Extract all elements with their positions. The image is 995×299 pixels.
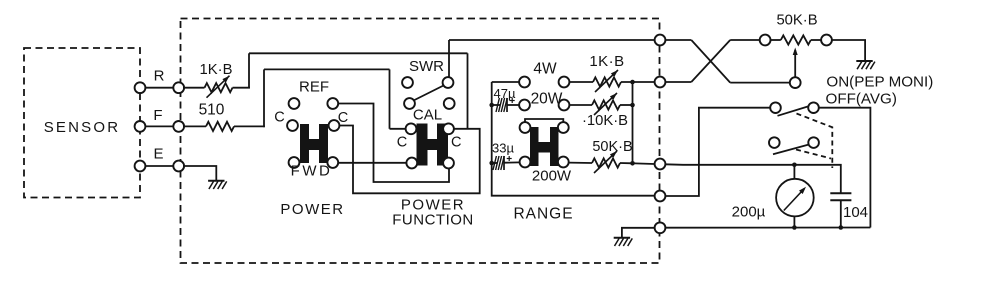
capacitor C3 plate top bbox=[830, 192, 851, 194]
pot VR2 terminal left bbox=[760, 35, 771, 46]
resistor R3 arrow bbox=[595, 70, 618, 92]
junction meter top bbox=[792, 163, 797, 168]
switch S3 contact 20W-left bbox=[519, 100, 530, 111]
switch S1 H wafer bbox=[300, 124, 328, 163]
svg-text:1K·B: 1K·B bbox=[589, 53, 624, 70]
switch S4 contact 1L bbox=[770, 102, 781, 113]
svg-text:C: C bbox=[274, 110, 284, 126]
switch S4 arm2 bbox=[773, 145, 808, 155]
terminal E sensor bbox=[135, 161, 146, 172]
svg-text:C: C bbox=[397, 135, 407, 151]
capacitor C3 plate bottom bbox=[830, 199, 851, 201]
svg-text:CAL: CAL bbox=[413, 107, 442, 124]
svg-text:510: 510 bbox=[199, 102, 225, 119]
svg-text:RANGE: RANGE bbox=[513, 206, 573, 223]
switch S4 contact 1R bbox=[808, 102, 819, 113]
switch S3 contact top-left bbox=[520, 122, 531, 133]
wire F to R2 bbox=[183, 125, 206, 127]
switch S3 contact bottom-left bbox=[520, 157, 531, 168]
terminal out range bbox=[655, 191, 666, 202]
wire R down to C bus bbox=[467, 53, 469, 129]
terminal out common bbox=[655, 222, 666, 233]
wire R3 to bus bbox=[621, 81, 655, 83]
wire riser R up bbox=[248, 53, 250, 88]
wire R4 to bus bbox=[620, 104, 633, 106]
terminal R main bbox=[173, 82, 184, 93]
svg-text:ON(PEP MONI): ON(PEP MONI) bbox=[826, 74, 933, 91]
switch S2 contact row2-left bbox=[404, 98, 415, 109]
svg-text:OFF(AVG): OFF(AVG) bbox=[826, 90, 897, 107]
wire 33µ a bbox=[492, 162, 497, 164]
wire 20W left b bbox=[508, 104, 520, 106]
wire VR1 to riser bbox=[233, 87, 250, 89]
switch S2 contact SWR-right bbox=[443, 77, 454, 88]
terminal R sensor bbox=[135, 82, 146, 93]
wire 20W right bbox=[569, 104, 592, 106]
svg-text:POWER: POWER bbox=[280, 201, 344, 218]
wire 33µ b bbox=[505, 161, 520, 163]
wire E link bbox=[140, 165, 179, 167]
meter M1 body bbox=[776, 179, 814, 217]
meter M1 stub bottom bbox=[793, 216, 795, 227]
switch S2 H wafer bbox=[417, 124, 449, 166]
pot VR2 wiper terminal bbox=[790, 77, 801, 88]
wire 200W right bbox=[569, 162, 592, 164]
wire F to S2 C-left bbox=[390, 128, 406, 130]
switch S2 contact C-left bbox=[406, 123, 417, 134]
svg-text:FWD: FWD bbox=[291, 163, 333, 180]
resistor R4 arrow bbox=[594, 93, 617, 115]
switch S1 contact REF-left bbox=[289, 98, 300, 109]
wire S4 out bbox=[819, 108, 871, 228]
pot VR2 terminal right bbox=[821, 35, 832, 46]
junction R3 bbox=[630, 80, 635, 85]
switch S1 contact C-left bbox=[287, 120, 298, 131]
wire F down bbox=[389, 69, 391, 128]
resistor VR1 zigzag bbox=[205, 83, 233, 92]
capacitor C1 47µ bbox=[496, 98, 499, 112]
switch S3 bracket bbox=[525, 119, 563, 122]
svg-text:REF: REF bbox=[299, 79, 329, 96]
wire R5 to bus bbox=[620, 162, 633, 164]
pot VR2 zigzag bbox=[781, 35, 811, 44]
switch S1 contact bottom-right bbox=[327, 157, 338, 168]
switch S3 contact top-right bbox=[558, 122, 569, 133]
svg-text:C: C bbox=[338, 110, 348, 126]
wire common to ground bbox=[622, 228, 655, 238]
switch S3 contact bottom-right bbox=[558, 157, 569, 168]
switch S2 contact bottom-right bbox=[443, 158, 454, 169]
wire cross to wiper bbox=[730, 82, 790, 84]
resistor R4 zigzag bbox=[592, 100, 620, 109]
wire S4 feed bbox=[665, 108, 770, 196]
resistor R3 zigzag bbox=[593, 77, 621, 86]
switch S4 contact 2R bbox=[808, 137, 819, 148]
terminal out meter+ bbox=[655, 159, 666, 170]
svg-text:50K·B: 50K·B bbox=[776, 13, 817, 29]
wire R5 to edge bbox=[633, 162, 655, 165]
wire 4W right bbox=[569, 81, 593, 83]
switch S2 contact bottom-left bbox=[406, 158, 417, 169]
switch S2 contact C-right bbox=[443, 123, 454, 134]
wire R link bbox=[140, 87, 179, 89]
wire cross diag up bbox=[691, 40, 730, 82]
wire cross bottom-left bbox=[665, 81, 691, 83]
svg-text:E: E bbox=[153, 146, 163, 163]
terminal F sensor bbox=[135, 121, 146, 132]
wire S2 SWR-right riser bbox=[448, 40, 450, 77]
svg-text:1K·B: 1K·B bbox=[200, 62, 233, 78]
switch S2 contact SWR-left bbox=[402, 77, 413, 88]
resistor R5 arrow bbox=[594, 151, 617, 173]
svg-text:F: F bbox=[153, 107, 162, 124]
switch S1 contact C-right bbox=[329, 120, 340, 131]
wire cross top-left bbox=[665, 39, 691, 41]
resistor R2 zigzag bbox=[206, 122, 234, 131]
pot VR2 right lead bbox=[811, 39, 821, 41]
svg-text:SENSOR: SENSOR bbox=[44, 119, 121, 136]
resistor VR1 arrow bbox=[207, 76, 230, 98]
svg-text:200W: 200W bbox=[532, 168, 572, 185]
switch S3 contact 4W-left bbox=[519, 77, 530, 88]
capacitor C2 33µ bbox=[493, 156, 496, 170]
terminal E main bbox=[173, 161, 184, 172]
pot VR2 wiper arrow bbox=[794, 50, 796, 77]
switch S4 arm1 bbox=[778, 107, 808, 116]
wire S1 C-right loop bbox=[339, 126, 479, 194]
svg-text:R: R bbox=[154, 68, 165, 85]
switch S1 contact REF-right bbox=[327, 98, 338, 109]
capacitor C3 lead bbox=[840, 200, 842, 227]
switch S3 contact 4W-right bbox=[559, 77, 570, 88]
svg-text:33µ: 33µ bbox=[492, 141, 514, 156]
svg-text:4W: 4W bbox=[533, 61, 557, 78]
ground E bbox=[208, 180, 224, 182]
wire range bus bbox=[632, 82, 634, 163]
svg-text:SWR: SWR bbox=[409, 58, 444, 75]
wire cross to VR2 bbox=[730, 39, 760, 41]
junction R4 bbox=[630, 103, 635, 108]
wire R2 to riser bbox=[234, 125, 265, 127]
svg-text:·10K·B: ·10K·B bbox=[582, 113, 628, 129]
wire F top run bbox=[264, 68, 390, 70]
switch S3 H wafer bbox=[530, 127, 559, 166]
switch S2 rotor bbox=[414, 85, 445, 101]
wire E to ground bbox=[183, 166, 216, 181]
switch S4 contact 2L bbox=[769, 137, 780, 148]
wire S1 REF-right loop bbox=[338, 104, 449, 183]
svg-text:C: C bbox=[451, 135, 461, 151]
svg-text:FUNCTION: FUNCTION bbox=[392, 212, 474, 229]
wire S1 bottom-right to S2 bbox=[338, 162, 406, 164]
wire cross diag down bbox=[691, 40, 730, 83]
wire 4W left bbox=[492, 81, 519, 83]
switch S4 gang link bbox=[797, 114, 833, 169]
wire R top run bbox=[249, 52, 468, 54]
meter M1 stub top bbox=[793, 165, 795, 179]
ground main bbox=[614, 237, 630, 239]
wire F link bbox=[140, 125, 179, 127]
meter M1 needle bbox=[784, 189, 805, 211]
terminal out top bbox=[655, 35, 666, 46]
wire meter bottom rail bbox=[665, 227, 870, 229]
junction R5 bbox=[630, 161, 635, 166]
svg-text:50K·B: 50K·B bbox=[592, 139, 632, 155]
wire meter top rail bbox=[665, 164, 840, 193]
junction meter bottom bbox=[792, 225, 797, 230]
pot VR2 left lead bbox=[771, 39, 781, 41]
resistor R5 zigzag bbox=[592, 158, 620, 167]
terminal out 4W bbox=[655, 77, 666, 88]
wire range left bus bbox=[492, 82, 655, 196]
wire 20W left a bbox=[492, 104, 500, 106]
terminal F main bbox=[173, 121, 184, 132]
svg-text:104: 104 bbox=[843, 204, 868, 221]
switch S1 contact bottom-left bbox=[289, 157, 300, 168]
junction C2 bus bbox=[489, 161, 494, 166]
switch S3 contact 20W-right bbox=[559, 100, 570, 111]
svg-text:200µ: 200µ bbox=[732, 204, 766, 221]
wire top run to edge bbox=[449, 39, 655, 41]
junction cap bottom bbox=[839, 225, 844, 230]
junction C1 bus bbox=[489, 103, 494, 108]
wire VR2 to ground bbox=[832, 40, 865, 61]
wire riser F up bbox=[263, 69, 265, 127]
switch S4 gang link2 bbox=[796, 150, 831, 159]
ground VR2 bbox=[856, 60, 872, 62]
main unit box bbox=[181, 19, 660, 264]
switch S2 contact row2-right bbox=[444, 98, 455, 109]
wire R to VR1 bbox=[183, 87, 205, 89]
sensor unit box bbox=[24, 48, 140, 198]
